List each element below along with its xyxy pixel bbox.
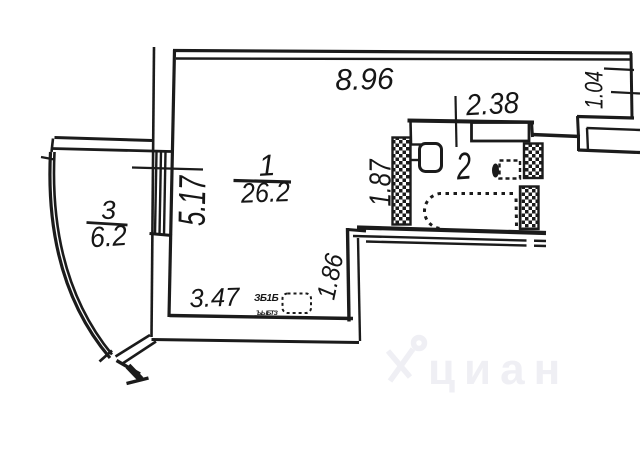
sink tap box xyxy=(411,145,421,161)
balcony top wall inner xyxy=(52,149,172,152)
wall toward right step xyxy=(532,135,581,137)
bathtub dashed outline xyxy=(424,194,516,229)
watermark cian person figure xyxy=(388,338,425,382)
diagonal wall end cap xyxy=(117,361,141,375)
balcony door stub foot xyxy=(127,378,149,384)
svg-text:ЪЫБТЗ: ЪЫБТЗ xyxy=(256,310,279,317)
bathroom right wall hatched lower xyxy=(520,187,539,230)
svg-text:8.96: 8.96 xyxy=(335,63,395,98)
balcony curved wall outer xyxy=(50,152,110,358)
wire top wall inner line xyxy=(176,59,631,60)
dimension line 2.38 xyxy=(456,96,457,147)
bathroom left wall hatched xyxy=(393,138,411,225)
bathroom bottom wall middle line xyxy=(353,236,546,241)
dimension tick 1.04 upper xyxy=(604,69,634,71)
svg-text:2.38: 2.38 xyxy=(464,87,520,123)
right outer wall vertical xyxy=(631,53,632,118)
dimension tick 1.04 lower xyxy=(611,92,640,94)
wire room1 left wall xyxy=(169,50,175,317)
wall step right of duct xyxy=(532,121,533,137)
svg-text:6.2: 6.2 xyxy=(89,220,128,255)
neighbour wall line xyxy=(587,128,640,130)
wire top wall outer line xyxy=(173,51,632,54)
window bottom cap xyxy=(150,234,173,236)
right step vertical xyxy=(577,135,580,151)
neighbour wall vertical stub xyxy=(587,128,588,151)
bathroom right wall hatched upper xyxy=(524,144,543,179)
dash gap in lower wall line xyxy=(527,237,535,249)
diagonal wall lower line xyxy=(123,342,157,364)
svg-text:1.04: 1.04 xyxy=(581,71,609,109)
diagonal wall upper line xyxy=(116,335,151,357)
bathroom top-left inner stub xyxy=(409,121,412,144)
toilet bowl xyxy=(492,164,499,178)
balcony left tick xyxy=(41,157,55,160)
room1 right wall outer xyxy=(348,228,350,322)
balcony door stub xyxy=(128,366,141,380)
balcony curved wall inner xyxy=(54,152,112,355)
room1 bottom wall bottom edge xyxy=(152,340,360,343)
bathroom bottom wall upper line xyxy=(357,228,546,234)
room1 right wall inner xyxy=(358,238,360,341)
svg-text:1.87: 1.87 xyxy=(363,158,398,206)
svg-text:3.47: 3.47 xyxy=(189,281,242,313)
wire left outer wall line xyxy=(152,47,155,337)
dimension tick 5.17 top xyxy=(132,168,203,170)
balcony top wall outer xyxy=(55,138,153,141)
svg-text:циан: циан xyxy=(428,345,569,394)
stamp dashed box xyxy=(283,294,312,314)
window between room1 and balcony xyxy=(155,152,166,236)
bathroom top wall xyxy=(408,121,535,123)
corridor wall corner stub xyxy=(348,230,367,232)
right upper step vertical xyxy=(578,116,579,137)
room3 fraction line xyxy=(87,223,128,226)
ventilation duct box xyxy=(472,123,530,142)
room1 fraction line xyxy=(234,181,292,183)
right upper step wall xyxy=(577,117,634,119)
svg-text:5.17: 5.17 xyxy=(172,174,215,226)
svg-text:26.2: 26.2 xyxy=(240,176,291,209)
balcony wall left joint xyxy=(52,139,54,153)
bathroom bottom wall lower line xyxy=(366,242,546,247)
right step lower wall xyxy=(578,150,640,153)
toilet tank dashed xyxy=(500,161,521,179)
sink basin xyxy=(420,144,442,172)
balcony curve end tick xyxy=(100,351,113,362)
room1 bottom wall top edge xyxy=(170,316,354,319)
svg-text:ЗБ1Б: ЗБ1Б xyxy=(254,293,279,304)
svg-text:2: 2 xyxy=(454,146,473,189)
